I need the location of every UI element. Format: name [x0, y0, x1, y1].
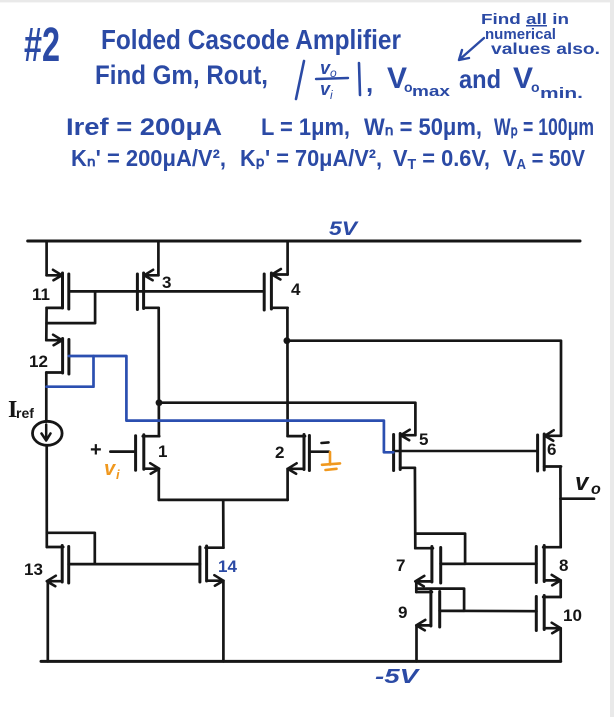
svg-text:i: i [116, 467, 120, 482]
node B junction dot [284, 337, 291, 344]
gain magnitude bar left [296, 61, 304, 99]
blue wire M12 gate to cascode gate bus [69, 356, 394, 452]
transistor M3 (PMOS) [137, 270, 171, 310]
wire rail to M3 source [157, 241, 160, 275]
transistor M13 (NMOS) [24, 546, 200, 587]
transistor M2 (NMOS) [275, 435, 329, 474]
wire rail to M4 source [286, 241, 289, 275]
transistor M11 (PMOS) [32, 270, 69, 309]
svg-text:ref: ref [16, 405, 34, 421]
label Iref [8, 397, 34, 423]
wire gate bus M9-M10 [440, 609, 537, 612]
wire M2 source to tail [286, 469, 289, 500]
svg-text:11: 11 [32, 285, 50, 304]
svg-text:2: 2 [275, 443, 284, 462]
svg-text:8: 8 [559, 556, 568, 575]
positive supply rail 5V [28, 240, 580, 243]
svg-text:and: and [459, 64, 501, 94]
svg-text:13: 13 [24, 560, 43, 579]
svg-text:o: o [591, 481, 601, 498]
transistor M14 (NMOS) [200, 546, 238, 586]
wire gate bus M7-M8 [441, 562, 537, 565]
svg-text:max: max [412, 83, 451, 100]
wire tail to M14 drain [222, 500, 225, 548]
page edge shading top [0, 0, 614, 2]
svg-text:6: 6 [547, 440, 556, 459]
output tap wire vo [561, 497, 595, 500]
svg-text:Wₚ = 100μm: Wₚ = 100μm [494, 114, 594, 141]
svg-text:10: 10 [563, 606, 582, 625]
svg-text:5: 5 [419, 430, 428, 449]
svg-text:Wₙ = 50μm,: Wₙ = 50μm, [364, 114, 482, 141]
current source Iref [33, 421, 63, 445]
svg-text:9: 9 [398, 603, 407, 622]
wire M11 diode connection [47, 291, 96, 323]
wire M5 drain down to M7 [414, 468, 417, 548]
svg-text:Find Gm, Rout,: Find Gm, Rout, [95, 60, 268, 90]
wire node A to M5 source [159, 403, 415, 436]
wire gate bus M5-M6 [394, 450, 538, 453]
wire M10 source to negative rail [559, 628, 562, 661]
wire M8 source to M10 drain [559, 580, 562, 597]
wire M12 drain to Iref [45, 373, 48, 422]
svg-text:Kₙ' = 200μA/V²,: Kₙ' = 200μA/V², [71, 145, 226, 171]
wire M13 diode connection [47, 533, 95, 564]
svg-text:Iref = 200μA: Iref = 200μA [66, 114, 222, 141]
node A junction dot [156, 399, 163, 406]
label vi (orange) [104, 458, 120, 482]
gain magnitude bar right [359, 63, 360, 95]
svg-text:14: 14 [218, 557, 237, 576]
wire M7 source to M9 drain [415, 581, 418, 592]
wire M1 source to tail [157, 469, 160, 500]
wire M11 drain to M12 source trunk [45, 308, 48, 340]
transistor M8 (NMOS) [536, 546, 568, 586]
wire M9 source to negative rail [415, 625, 418, 661]
wire M6 drain down to M8 (output node) [559, 467, 562, 548]
wire M4 drain down to node B [286, 308, 289, 436]
svg-text:3: 3 [162, 273, 171, 292]
transistor M12 (PMOS) [29, 335, 69, 374]
transistor M1 (NMOS) [110, 435, 167, 474]
svg-text:v: v [575, 469, 590, 496]
wire tail node [159, 499, 288, 502]
svg-text:values also.: values also. [491, 41, 600, 58]
svg-text:#2: #2 [24, 19, 60, 72]
label - at M2 gate [322, 441, 329, 444]
transistor M7 (NMOS) [396, 547, 465, 587]
svg-text:V: V [513, 62, 533, 95]
svg-text:L = 1μm,: L = 1μm, [261, 114, 350, 141]
svg-text:12: 12 [29, 352, 48, 371]
label vo [575, 469, 601, 498]
svg-text:min.: min. [540, 85, 583, 102]
wire M13 source to negative rail [46, 581, 49, 661]
transistor M4 (PMOS) [264, 269, 301, 310]
transistor M6 (PMOS) [538, 430, 561, 471]
svg-text:Kₚ' = 70μA/V²,: Kₚ' = 70μA/V², [240, 145, 382, 171]
transistor M5 (PMOS) [394, 430, 429, 471]
page edge shading right [610, 0, 614, 717]
transistor M10 (NMOS) [536, 596, 582, 634]
wire M3 drain down to node A [157, 308, 160, 436]
wire M14 source to negative rail [222, 581, 225, 662]
wire M9 diode connection [416, 589, 464, 611]
wire Iref to M13 drain [45, 445, 48, 547]
svg-text:i: i [330, 88, 333, 102]
blue wire branch M12 gate to drain (diode) [47, 356, 94, 387]
svg-text:-5V: -5V [375, 666, 420, 688]
annotation arrow [459, 38, 484, 60]
svg-text:VA = 50V: VA = 50V [503, 145, 586, 173]
wire node B to M6 source [287, 341, 561, 436]
svg-text:Folded Cascode Amplifier: Folded Cascode Amplifier [101, 24, 401, 55]
svg-text:o: o [531, 79, 540, 95]
wire gate bus M11-M3-M4 [69, 290, 264, 293]
ground symbol at M2 gate (orange) [322, 452, 340, 470]
svg-text:5V: 5V [329, 219, 359, 240]
svg-text:1: 1 [158, 442, 167, 461]
transistor M9 (NMOS) [398, 591, 464, 631]
svg-text:7: 7 [396, 556, 405, 575]
wire rail to M11 source [45, 241, 48, 275]
svg-text:4: 4 [291, 280, 301, 299]
negative supply rail -5V [41, 660, 561, 663]
wire M7 diode connection [415, 534, 465, 564]
svg-text:+: + [90, 439, 102, 461]
svg-text:,: , [366, 68, 373, 98]
fraction bar [316, 78, 348, 79]
